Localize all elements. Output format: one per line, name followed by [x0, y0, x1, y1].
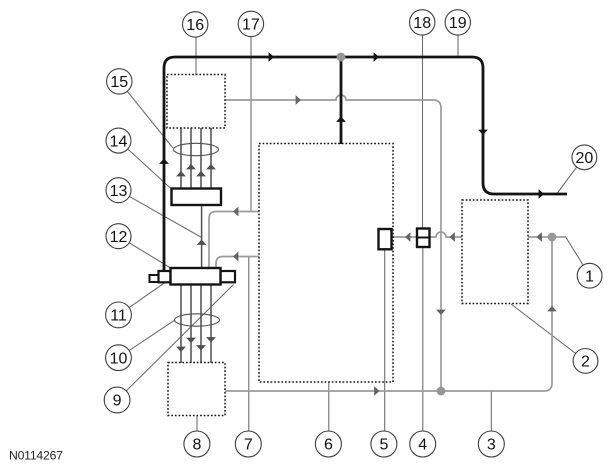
leader line to callout 5	[384, 250, 386, 432]
thick black branch to center box	[340, 57, 343, 144]
svg-text:6: 6	[324, 437, 333, 454]
callout 19	[445, 10, 470, 35]
svg-text:1: 1	[585, 268, 594, 285]
bundle lines component 12 to component 8	[181, 285, 211, 363]
component 5 (valve on center box edge)	[379, 229, 392, 249]
leader line to callout 18	[422, 35, 424, 229]
callout 9	[104, 387, 130, 413]
component 14 (solid block)	[172, 189, 222, 206]
svg-text:11: 11	[110, 308, 127, 325]
svg-text:14: 14	[110, 133, 128, 150]
svg-text:15: 15	[110, 74, 128, 91]
black arrow right on top line	[269, 52, 274, 62]
gray arrow right on bottom hose	[374, 386, 379, 396]
black arrow right near 20	[539, 189, 544, 199]
callout 8	[184, 431, 210, 457]
black arrow right on top line 2	[374, 52, 379, 62]
svg-text:19: 19	[449, 15, 467, 32]
svg-text:16: 16	[186, 17, 204, 34]
callout 12	[106, 224, 131, 249]
leader line to callout 14	[128, 149, 172, 190]
leader line to callout 17	[250, 37, 252, 212]
leader line to callout 4	[422, 247, 424, 431]
leader line to callout 15	[127, 91, 173, 148]
gray arrow right on hose 16	[296, 95, 301, 105]
dashed box center component 6	[259, 144, 393, 383]
hose from component 8 along bottom up to node B	[225, 237, 552, 391]
svg-text:3: 3	[487, 437, 496, 454]
leader line to callout 1	[566, 238, 583, 266]
hose 2 from center box to component 12	[216, 257, 259, 269]
svg-text:10: 10	[110, 350, 128, 367]
leader line to callout 19	[457, 35, 459, 56]
callout 13	[106, 178, 131, 203]
callout 15	[107, 69, 132, 94]
leader line to callout 8	[196, 416, 198, 432]
callout 10	[106, 345, 132, 371]
bundle lines component 16 to component 14	[181, 128, 211, 189]
callout 20	[572, 145, 597, 170]
dashed box component 2	[462, 200, 528, 304]
gray arrow up on right riser	[547, 306, 557, 311]
callout 2	[573, 349, 598, 374]
junction dot A	[337, 53, 346, 62]
component 12 right tab	[221, 271, 236, 282]
callout 7	[235, 431, 261, 457]
leader line to callout 16	[195, 37, 197, 75]
callout 11	[106, 302, 132, 328]
callout 5	[371, 431, 397, 457]
svg-text:2: 2	[581, 354, 590, 371]
leader line to callout 20	[557, 167, 577, 194]
hose from component 2 right to node 1	[528, 236, 566, 238]
component 12 main block	[171, 268, 221, 285]
svg-text:12: 12	[110, 229, 128, 246]
callout 4	[410, 431, 436, 457]
svg-text:7: 7	[244, 437, 253, 454]
svg-text:13: 13	[110, 183, 128, 200]
junction dot on bottom hose	[437, 387, 446, 396]
black arrow up on branch	[336, 117, 346, 122]
callout 18	[410, 10, 435, 35]
leader line to callout 12	[129, 243, 170, 268]
callout 1	[577, 263, 602, 288]
leader line to callout 13	[129, 196, 201, 237]
callout 6	[315, 431, 341, 457]
hose 1 from center box to component 12	[209, 212, 259, 269]
bundle arrows up above component 14	[176, 171, 186, 176]
component 4 divider	[417, 237, 430, 239]
junction dot B right side	[548, 233, 557, 242]
component 12 left tab	[159, 271, 171, 282]
callout 3	[478, 431, 504, 457]
leader line to callout 9	[126, 285, 234, 392]
bundle arrow up between 14 and 12	[197, 240, 207, 245]
svg-text:N0114267: N0114267	[9, 449, 63, 463]
svg-text:8: 8	[192, 437, 201, 454]
thick black main hose line	[164, 57, 567, 271]
leader line to callout 11	[129, 283, 165, 308]
gray arrow left on hose 2	[233, 252, 238, 262]
gray arrow left on hose 2-5 inner	[405, 232, 410, 242]
bundle arrows down below component 12	[176, 347, 186, 352]
hose from component 16 to junction A (gray, with hop over black line)	[225, 95, 441, 391]
dashed box component 16	[167, 75, 225, 129]
hose from component 2 to component 5 (gray, with hop)	[391, 232, 462, 237]
gray arrow left on right hose	[537, 232, 542, 242]
component 12 small left tab	[150, 275, 159, 282]
leader line to callout 2	[511, 304, 576, 353]
svg-text:9: 9	[113, 393, 122, 410]
leader line to callout 7	[248, 257, 250, 431]
ellipse 10 (lower clamp)	[175, 314, 220, 326]
black arrow up on left vertical	[159, 159, 169, 164]
leader line to callout 10	[129, 320, 175, 351]
line component 14 to component 12	[201, 206, 203, 269]
component 4 (inline valve)	[417, 229, 430, 248]
black arrow down on right vertical	[478, 130, 488, 135]
ellipse 15 (upper clamp)	[174, 143, 219, 155]
callout 17	[238, 11, 263, 36]
gray arrow left on hose 1	[233, 207, 238, 217]
callout 16	[183, 12, 208, 37]
leader line to callout 6	[328, 382, 330, 431]
svg-text:4: 4	[418, 437, 427, 454]
dashed box component 8	[168, 363, 225, 416]
gray arrow left on hose 2-5 outer	[450, 232, 455, 242]
svg-text:17: 17	[242, 17, 260, 34]
callout 14	[106, 128, 131, 153]
gray arrow down on hose to bottom	[436, 310, 446, 315]
svg-text:5: 5	[379, 437, 388, 454]
leader line to callout 3	[490, 391, 492, 431]
svg-text:18: 18	[413, 15, 431, 32]
svg-text:20: 20	[576, 150, 594, 167]
